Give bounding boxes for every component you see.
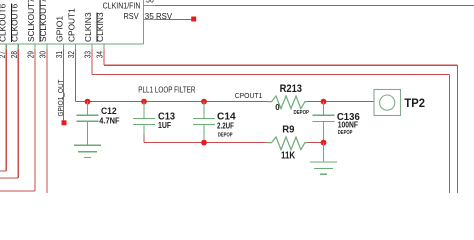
svg-text:RSV: RSV xyxy=(124,12,140,21)
svg-text:PLL1 LOOP FILTER: PLL1 LOOP FILTER xyxy=(138,86,195,95)
svg-text:DEPOP: DEPOP xyxy=(218,132,233,138)
svg-text:TP2: TP2 xyxy=(404,98,425,110)
svg-text:CPOUT1: CPOUT1 xyxy=(68,8,77,42)
svg-text:CLKIN3: CLKIN3 xyxy=(84,12,93,42)
svg-text:1UF: 1UF xyxy=(158,121,171,130)
svg-text:30: 30 xyxy=(38,51,47,59)
svg-text:R213: R213 xyxy=(280,83,302,95)
svg-text:31: 31 xyxy=(55,51,64,59)
svg-text:GPIO1: GPIO1 xyxy=(56,15,65,42)
svg-text:35: 35 xyxy=(145,12,155,21)
svg-text:36: 36 xyxy=(146,0,154,5)
svg-text:GPIO1_OUT: GPIO1_OUT xyxy=(56,79,65,116)
svg-text:2.2UF: 2.2UF xyxy=(217,121,234,130)
svg-text:RSV: RSV xyxy=(156,12,173,21)
svg-text:0: 0 xyxy=(275,103,280,112)
svg-text:4.7NF: 4.7NF xyxy=(99,117,119,126)
svg-text:33: 33 xyxy=(84,51,93,59)
svg-text:28: 28 xyxy=(10,51,19,59)
svg-text:DEPOP: DEPOP xyxy=(294,110,310,116)
svg-text:DEPOP: DEPOP xyxy=(338,130,353,136)
svg-text:CLKIN1/FIN: CLKIN1/FIN xyxy=(103,2,141,11)
svg-text:CLKOUT6: CLKOUT6 xyxy=(0,3,7,42)
svg-text:CPOUT1: CPOUT1 xyxy=(235,93,263,100)
svg-text:R9: R9 xyxy=(282,123,294,135)
svg-text:32: 32 xyxy=(67,51,76,59)
svg-text:SCLKOUT7: SCLKOUT7 xyxy=(27,0,36,42)
svg-text:100NF: 100NF xyxy=(338,121,358,130)
svg-text:11K: 11K xyxy=(281,150,296,161)
svg-text:34: 34 xyxy=(96,51,105,59)
svg-text:29: 29 xyxy=(26,51,35,59)
